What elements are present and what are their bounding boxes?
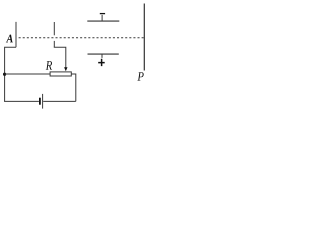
battery long plate (positive) — [42, 94, 44, 109]
top plate stub — [101, 15, 103, 21]
wire from plate A bottom, left and down — [5, 47, 16, 101]
deflection top plate — [87, 20, 119, 22]
bottom wire left of battery — [4, 100, 39, 102]
screen line P — [143, 4, 145, 71]
node junction dot — [3, 73, 6, 76]
wire resistor right to bottom — [71, 74, 76, 101]
plate A (cathode) — [15, 22, 17, 47]
bottom plate stub — [101, 54, 103, 58]
label A — [6, 35, 13, 43]
anode plate lower segment — [53, 41, 55, 47]
dashed beam axis — [19, 37, 144, 39]
label P — [137, 72, 143, 80]
anode plate upper segment — [53, 22, 55, 35]
wire anode to wiper arrow — [54, 47, 66, 67]
minus polarity sign — [100, 13, 105, 15]
label R — [46, 61, 52, 70]
battery short plate (negative) — [39, 98, 41, 105]
wiper arrow head — [64, 67, 67, 71]
wire junction to resistor — [5, 73, 51, 75]
resistor R (potentiometer body) — [50, 72, 71, 76]
bottom wire right of battery — [43, 100, 76, 102]
plus polarity sign — [98, 59, 105, 66]
deflection bottom plate — [88, 53, 119, 55]
